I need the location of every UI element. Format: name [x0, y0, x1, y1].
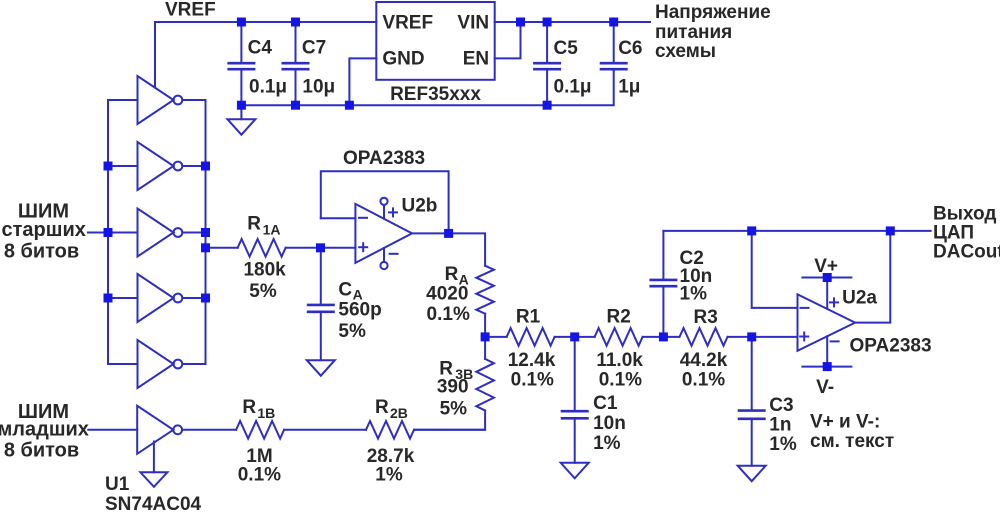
svg-text:Напряжение: Напряжение — [655, 2, 771, 23]
svg-text:ЦАП: ЦАП — [933, 222, 974, 243]
svg-text:REF35xxx: REF35xxx — [390, 84, 481, 105]
svg-text:U2b: U2b — [402, 196, 438, 217]
svg-text:U1: U1 — [105, 474, 130, 495]
svg-text:12.4k: 12.4k — [508, 350, 556, 371]
svg-text:0.1%: 0.1% — [599, 370, 642, 391]
svg-text:1%: 1% — [593, 433, 621, 454]
svg-text:10n: 10n — [593, 413, 626, 434]
svg-text:V+ и V-:: V+ и V-: — [810, 412, 880, 433]
svg-text:DACout: DACout — [933, 241, 1000, 262]
svg-text:V-: V- — [816, 377, 834, 398]
svg-text:R1: R1 — [516, 307, 541, 328]
svg-text:5%: 5% — [440, 399, 468, 420]
svg-text:R: R — [445, 264, 459, 285]
svg-text:560p: 560p — [338, 299, 381, 320]
svg-text:Выход: Выход — [933, 203, 996, 224]
svg-text:4020: 4020 — [426, 284, 468, 305]
svg-text:R: R — [247, 213, 261, 234]
svg-text:младших: младших — [0, 419, 89, 441]
svg-text:1%: 1% — [769, 434, 797, 455]
svg-text:0.1%: 0.1% — [682, 370, 725, 391]
svg-text:схемы: схемы — [655, 41, 716, 62]
svg-text:1%: 1% — [680, 283, 708, 304]
svg-text:C: C — [338, 279, 352, 300]
svg-text:питания: питания — [655, 22, 732, 43]
svg-text:1%: 1% — [375, 465, 403, 486]
svg-text:2B: 2B — [390, 405, 408, 421]
svg-text:1μ: 1μ — [618, 76, 640, 97]
svg-text:5%: 5% — [338, 321, 366, 342]
svg-text:44.2k: 44.2k — [680, 350, 728, 371]
svg-text:C3: C3 — [769, 395, 793, 416]
svg-text:C5: C5 — [554, 38, 579, 59]
svg-text:VREF: VREF — [165, 0, 216, 21]
svg-text:V+: V+ — [814, 256, 838, 277]
svg-text:R3: R3 — [694, 307, 718, 328]
svg-text:R2: R2 — [607, 307, 631, 328]
svg-text:1B: 1B — [257, 405, 275, 421]
svg-text:8 битов: 8 битов — [4, 241, 79, 263]
svg-text:OPA2383: OPA2383 — [850, 336, 932, 357]
svg-text:OPA2383: OPA2383 — [343, 148, 425, 169]
svg-text:EN: EN — [463, 49, 489, 70]
svg-text:0.1%: 0.1% — [427, 304, 470, 325]
svg-text:11.0k: 11.0k — [596, 350, 643, 371]
svg-text:0.1μ: 0.1μ — [249, 76, 287, 97]
svg-text:8 битов: 8 битов — [4, 440, 79, 462]
svg-text:см. текст: см. текст — [810, 431, 894, 452]
svg-text:C1: C1 — [593, 393, 618, 414]
svg-text:U2a: U2a — [842, 288, 877, 309]
svg-text:VREF: VREF — [382, 13, 433, 34]
svg-text:1A: 1A — [263, 221, 281, 237]
svg-text:0.1%: 0.1% — [238, 465, 281, 486]
svg-text:10μ: 10μ — [302, 76, 335, 97]
svg-text:C7: C7 — [302, 38, 326, 59]
svg-text:1n: 1n — [769, 415, 791, 436]
svg-text:390: 390 — [437, 377, 469, 398]
svg-text:180k: 180k — [243, 260, 286, 281]
svg-text:C4: C4 — [248, 38, 273, 59]
svg-text:R: R — [375, 397, 389, 418]
svg-text:5%: 5% — [249, 281, 277, 302]
svg-text:R: R — [242, 397, 256, 418]
svg-text:C6: C6 — [618, 38, 642, 59]
svg-text:старших: старших — [2, 219, 86, 241]
svg-text:0.1μ: 0.1μ — [554, 76, 592, 97]
svg-text:GND: GND — [382, 49, 424, 70]
svg-text:0.1%: 0.1% — [511, 370, 554, 391]
svg-text:SN74AC04: SN74AC04 — [105, 494, 202, 512]
svg-text:VIN: VIN — [457, 13, 489, 34]
